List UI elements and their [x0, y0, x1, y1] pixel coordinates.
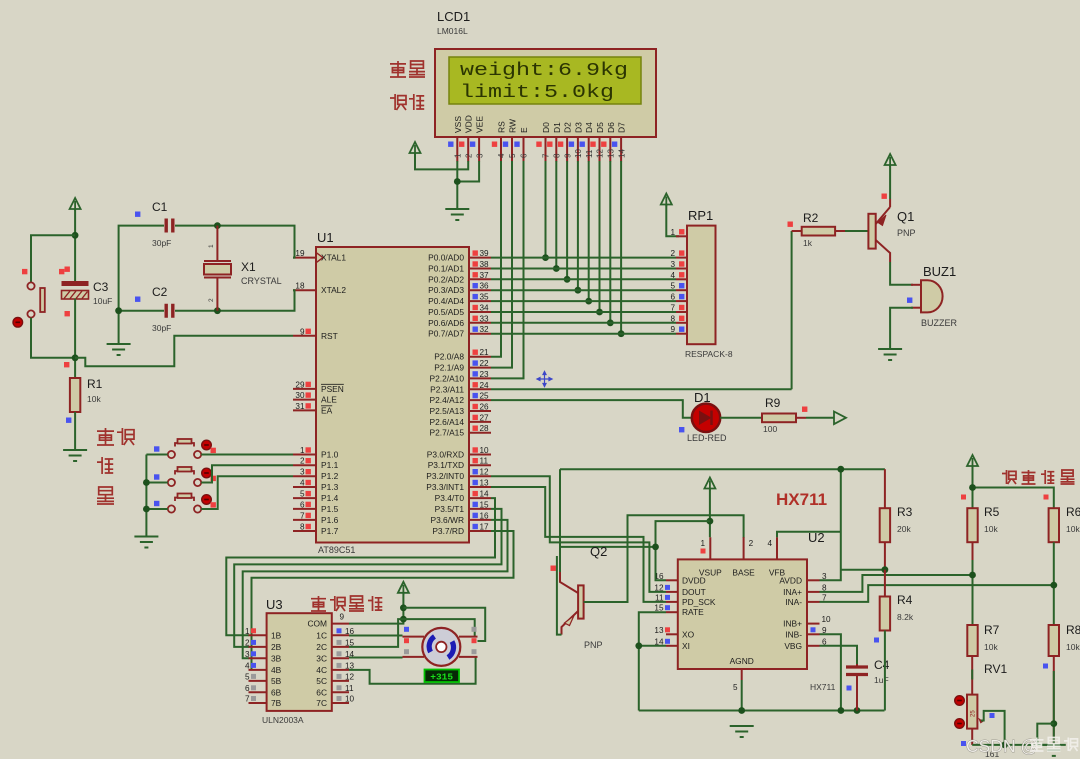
svg-text:RESPACK-8: RESPACK-8: [685, 349, 733, 359]
svg-text:1: 1: [454, 153, 463, 158]
ground bridge: [1042, 745, 1066, 756]
wire P3.6 to U3 3B: [243, 520, 508, 658]
wire LCD E to U1 P2.2: [491, 161, 524, 378]
svg-text:ULN2003A: ULN2003A: [262, 715, 304, 725]
svg-text:10: 10: [480, 446, 490, 455]
svg-text:R1: R1: [87, 377, 103, 391]
svg-text:13: 13: [654, 626, 664, 635]
node red squares bridge top: [961, 495, 966, 500]
power arrow HX711: [704, 478, 715, 491]
svg-text:21: 21: [480, 348, 490, 357]
resistor R9 100: [762, 414, 796, 423]
svg-text:P1.1: P1.1: [321, 460, 339, 470]
label chinese 步进电机: [311, 596, 326, 611]
pushbutton reset switch: [27, 282, 44, 317]
wire 4C to motor RB: [349, 658, 476, 684]
wire Q2 emitter: [557, 556, 562, 635]
wire LCD D4 to P0.4 bus: [588, 161, 590, 301]
U1 pin 2 P1.1: [293, 464, 316, 466]
svg-text:10: 10: [345, 695, 355, 704]
U1 pin 23 P2.2/A10: [469, 377, 491, 379]
junction DVDD net: [652, 544, 659, 551]
wire C2 left: [119, 310, 164, 312]
svg-text:+315: +315: [430, 671, 453, 682]
svg-text:38: 38: [480, 260, 490, 269]
resistor R5 10k: [967, 508, 977, 542]
junction R8 ground loop: [1050, 720, 1057, 727]
power arrow bridge: [967, 455, 978, 468]
svg-text:R7: R7: [984, 623, 1000, 637]
svg-text:22: 22: [480, 359, 490, 368]
svg-text:36: 36: [480, 282, 490, 291]
HX711 pin 12 DOUT: [666, 591, 678, 593]
svg-text:4: 4: [245, 661, 250, 670]
svg-text:2: 2: [670, 249, 675, 258]
U3 pin 12 5C: [332, 680, 349, 682]
wire P0.2 to RP1 pin 4: [491, 278, 676, 280]
LED D1 LED-RED: [692, 404, 720, 432]
wire P0.7 to RP1 pin 9: [491, 333, 676, 335]
wire VDD to power: [415, 153, 468, 169]
wire LCD RS to U1 P2.0: [491, 161, 501, 357]
svg-text:6B: 6B: [271, 687, 282, 697]
LCD pin 11 D4: [588, 137, 590, 162]
wire LCD D7 to P0.7 bus: [620, 161, 622, 334]
svg-text:P0.5/AD5: P0.5/AD5: [428, 307, 464, 317]
U1 pin 19 XTAL1: [293, 257, 316, 259]
svg-text:P1.4: P1.4: [321, 493, 339, 503]
svg-text:LED-RED: LED-RED: [687, 433, 727, 443]
wire P0.4 to RP1 pin 6: [491, 300, 676, 302]
node blue square C2: [135, 297, 140, 302]
LCD pin 8 D1: [555, 137, 557, 162]
wire power to Q1 emitter: [889, 165, 891, 199]
wire P3.4 to U3 1B: [226, 498, 495, 635]
svg-text:P0.3/AD3: P0.3/AD3: [428, 285, 464, 295]
svg-text:P2.7/A15: P2.7/A15: [430, 428, 465, 438]
capacitor C4 1uF: [856, 664, 858, 666]
node red square R2 corner: [788, 222, 793, 227]
wire R9 to terminal arrow: [806, 417, 834, 419]
node blue square R8: [1043, 664, 1048, 669]
svg-text:2: 2: [749, 539, 754, 548]
svg-text:P1.2: P1.2: [321, 471, 339, 481]
RP1 pin 9: [676, 333, 687, 335]
svg-text:RATE: RATE: [682, 607, 704, 617]
wire button3 to P1.2: [201, 476, 293, 509]
wire C3 to R1 junction: [74, 299, 76, 379]
U1 pin 27 P2.6/A14: [469, 421, 491, 423]
svg-text:D5: D5: [595, 122, 605, 133]
svg-text:33: 33: [480, 314, 490, 323]
wire INA- to bridge right: [820, 585, 1054, 602]
wire button 1 left: [146, 454, 167, 456]
U1 pin 38 P0.1/AD1: [469, 268, 491, 270]
wire P0.5 to RP1 pin 7: [491, 311, 676, 313]
wire R1 to ground: [74, 412, 76, 449]
svg-text:RW: RW: [508, 119, 518, 133]
node red squares switch: [22, 269, 27, 274]
svg-text:XI: XI: [682, 641, 690, 651]
svg-text:5C: 5C: [316, 676, 327, 686]
U3 pin 16 1C: [332, 634, 349, 636]
svg-text:12: 12: [345, 672, 355, 681]
label chinese 加: [97, 457, 113, 474]
U1 pin 9 RST: [293, 335, 316, 337]
svg-text:P2.1/A9: P2.1/A9: [434, 363, 464, 373]
svg-text:D7: D7: [617, 122, 627, 133]
wire P0.0 to RP1 pin 2: [491, 257, 676, 259]
resistor R8 10k: [1049, 625, 1059, 656]
HX711 pin 13 XO: [666, 633, 678, 635]
mcu U1 AT89C51 body: [316, 247, 469, 543]
RP1 pin 3: [676, 268, 687, 270]
svg-text:4: 4: [767, 539, 772, 548]
junction switch top: [72, 232, 79, 239]
svg-text:X1: X1: [241, 260, 256, 274]
label threshold chinese 阀值: [390, 94, 406, 110]
svg-text:R6: R6: [1066, 505, 1080, 519]
svg-text:Q2: Q2: [590, 544, 607, 559]
wire INB- to ground rail: [820, 634, 841, 710]
node red square RST: [64, 362, 69, 367]
svg-text:C1: C1: [152, 200, 168, 214]
stepper motor symbol: [403, 636, 425, 638]
svg-text:5: 5: [670, 282, 675, 291]
svg-text:14: 14: [617, 149, 626, 158]
svg-text:39: 39: [480, 249, 490, 258]
svg-text:5: 5: [300, 490, 305, 499]
svg-text:D2: D2: [563, 122, 573, 133]
svg-text:R4: R4: [897, 593, 913, 607]
node blue square LED: [679, 427, 684, 432]
svg-text:VBG: VBG: [784, 641, 802, 651]
wire R6 to node C: [1053, 542, 1055, 625]
svg-text:E: E: [519, 127, 529, 133]
svg-text:BUZZER: BUZZER: [921, 318, 958, 328]
node blue square R1: [66, 418, 71, 423]
label chinese 测重电桥: [1002, 470, 1016, 484]
wire VSUP branch to DVDD: [656, 521, 710, 580]
wire Q2 base to HX711 BASE: [584, 515, 744, 602]
HX711 pin 10 INB+: [807, 623, 820, 625]
wire bridge top rail: [972, 466, 974, 508]
junction C2 rail: [115, 307, 122, 314]
U1 pin 31 EA: [293, 409, 316, 411]
U1 pin 35 P0.4/AD4: [469, 300, 491, 302]
svg-text:DOUT: DOUT: [682, 587, 706, 597]
svg-text:PNP: PNP: [897, 228, 916, 238]
svg-text:AGND: AGND: [730, 656, 754, 666]
U1 pin 18 XTAL2: [293, 289, 316, 291]
svg-text:3: 3: [300, 468, 305, 477]
wire VSS down: [456, 161, 458, 208]
wire C1 left rail: [119, 226, 164, 343]
svg-text:1C: 1C: [316, 630, 327, 640]
U1 pin 3 P1.2: [293, 475, 316, 477]
U1 pin 6 P1.5: [293, 508, 316, 510]
wire LCD D2 to P0.2 bus: [566, 161, 568, 279]
svg-text:25: 25: [971, 710, 977, 717]
U3 pin 14 3C: [332, 657, 349, 659]
node blue square C4: [847, 686, 852, 691]
svg-text:INA-: INA-: [785, 597, 802, 607]
wire buttons ground rail: [145, 455, 147, 537]
svg-text:P3.5/T1: P3.5/T1: [435, 504, 465, 514]
U1 pin 13 P3.3/INT1: [469, 486, 491, 488]
svg-text:4: 4: [497, 153, 506, 158]
U1 pin 34 P0.5/AD5: [469, 311, 491, 313]
ground LCD VSS: [445, 209, 469, 220]
svg-text:4: 4: [670, 271, 675, 280]
U3 pin 4 4B: [249, 669, 267, 671]
svg-text:PSEN: PSEN: [321, 384, 344, 394]
wire RP1 pin1 to power: [666, 205, 679, 237]
svg-text:P2.0/A8: P2.0/A8: [434, 352, 464, 362]
wire power to COM: [349, 593, 403, 624]
svg-text:VSS: VSS: [453, 116, 463, 133]
LCD pin 9 D2: [566, 137, 568, 162]
svg-text:7: 7: [670, 304, 675, 313]
resistor pack RP1 RESPACK-8 body: [687, 226, 716, 345]
svg-text:VEE: VEE: [475, 116, 485, 133]
ground AGND: [730, 726, 754, 737]
svg-text:8: 8: [553, 153, 562, 158]
svg-text:10k: 10k: [984, 524, 998, 534]
U1 pin 1 P1.0: [293, 454, 316, 456]
svg-text:R8: R8: [1066, 623, 1080, 637]
svg-text:P3.3/INT1: P3.3/INT1: [426, 482, 464, 492]
svg-text:9: 9: [339, 613, 344, 622]
svg-text:P3.6/WR: P3.6/WR: [430, 515, 464, 525]
svg-text:C4: C4: [874, 658, 890, 672]
U1 pin 36 P0.3/AD3: [469, 289, 491, 291]
svg-text:2C: 2C: [316, 642, 327, 652]
U3 pin 13 4C: [332, 669, 349, 671]
wire AVDD vertical: [820, 469, 841, 580]
U3 pin 5 5B: [249, 680, 267, 682]
wire Q2 collector to DVDD net: [560, 546, 656, 548]
HX711 pin 8 INA+: [807, 591, 820, 593]
RV1 wiper arrow: [978, 718, 984, 724]
RP1 pin 8: [676, 322, 687, 324]
U1 pin 30 ALE: [293, 399, 316, 401]
U3 pin 3 3B: [249, 657, 267, 659]
svg-text:P0.4/AD4: P0.4/AD4: [428, 296, 464, 306]
resistor R1 10k: [70, 378, 80, 412]
svg-text:1: 1: [245, 627, 250, 636]
HX711 pin 11 PD_SCK: [666, 601, 678, 603]
svg-text:35: 35: [480, 293, 490, 302]
wire Q2 collector feed: [559, 469, 561, 572]
U1 pin 10 P3.0/RXD: [469, 454, 491, 456]
svg-text:R3: R3: [897, 505, 913, 519]
RP1 pin 2: [676, 257, 687, 259]
svg-text:7C: 7C: [316, 698, 327, 708]
resistor R3 20k: [884, 469, 886, 508]
svg-text:P2.6/A14: P2.6/A14: [430, 417, 465, 427]
node blue square C1: [135, 212, 140, 217]
U1 pin 22 P2.1/A9: [469, 367, 491, 369]
svg-text:HX711: HX711: [810, 682, 836, 692]
wire RATE to XI: [639, 612, 666, 710]
wire P2.3 to R2 net: [491, 388, 792, 390]
junction VSUP branch: [707, 518, 714, 525]
wire switch top: [31, 235, 75, 282]
svg-text:R5: R5: [984, 505, 1000, 519]
svg-text:limit:5.0kg: limit:5.0kg: [460, 82, 614, 103]
svg-text:R2: R2: [803, 211, 819, 225]
wire INA+ to bridge left: [820, 575, 972, 592]
junction stepper power 1: [400, 604, 407, 611]
svg-text:D4: D4: [584, 122, 594, 133]
wire buzzer to ground: [890, 308, 913, 348]
svg-text:5: 5: [733, 683, 738, 692]
svg-text:D1: D1: [694, 390, 711, 405]
power arrow RP1: [661, 194, 672, 207]
wire P0.3 to RP1 pin 5: [491, 289, 676, 291]
buzzer BUZ1 body: [921, 280, 943, 312]
svg-text:D6: D6: [606, 122, 616, 133]
U1 pin 24 P2.3/A11: [469, 388, 491, 390]
svg-text:9: 9: [670, 325, 675, 334]
svg-text:P2.2/A10: P2.2/A10: [430, 373, 465, 383]
svg-text:8: 8: [670, 314, 675, 323]
svg-text:7B: 7B: [271, 698, 282, 708]
junction X1 bottom: [214, 307, 221, 314]
junction RST node: [72, 354, 79, 361]
wire 3C to motor LB: [349, 657, 403, 659]
LCD pin 3 VEE: [478, 137, 480, 162]
junction node B: [969, 572, 976, 579]
resistor R4 8.2k: [884, 570, 886, 597]
svg-text:3C: 3C: [316, 653, 327, 663]
svg-text:LCD1: LCD1: [437, 9, 470, 24]
RP1 pin 4: [676, 278, 687, 280]
svg-text:Q1: Q1: [897, 209, 914, 224]
pushbutton K3: [168, 494, 201, 513]
svg-text:10k: 10k: [1066, 642, 1080, 652]
wire P3.3 to HX711 PD_SCK: [491, 487, 666, 602]
svg-text:3B: 3B: [271, 653, 282, 663]
svg-text:2: 2: [245, 638, 250, 647]
svg-text:D3: D3: [573, 122, 583, 133]
svg-text:23: 23: [480, 370, 490, 379]
svg-text:7: 7: [542, 153, 551, 158]
svg-text:8: 8: [300, 523, 305, 532]
node blue square RV1 bottom: [961, 741, 966, 746]
svg-text:9: 9: [300, 327, 305, 336]
svg-text:PD_SCK: PD_SCK: [682, 597, 716, 607]
svg-text:P3.0/RXD: P3.0/RXD: [427, 450, 464, 460]
LCD pin 12 D5: [599, 137, 601, 162]
svg-text:P0.7/AD7: P0.7/AD7: [428, 329, 464, 339]
svg-text:11: 11: [585, 149, 594, 158]
wire LCD D5 to P0.5 bus: [599, 161, 601, 312]
junction RATE/XI: [635, 642, 642, 649]
svg-text:10k: 10k: [984, 642, 998, 652]
junction node C: [1050, 582, 1057, 589]
wire 1C to motor LT: [349, 635, 403, 637]
svg-text:11: 11: [345, 684, 354, 693]
svg-text:10: 10: [822, 615, 832, 624]
U3 pin 1 1B: [249, 634, 267, 636]
U1 pin 8 P1.7: [293, 530, 316, 532]
HX711 pin 5 AGND: [741, 669, 743, 680]
svg-text:11: 11: [480, 457, 489, 466]
HX711 pin 7 INA-: [807, 601, 820, 603]
LCD pin 5 RW: [511, 137, 513, 162]
svg-text:D1: D1: [552, 122, 562, 133]
junction AVDD top rail: [837, 466, 844, 473]
pushbutton K2: [168, 467, 201, 486]
svg-text:1uF: 1uF: [874, 675, 889, 685]
svg-text:3: 3: [475, 153, 484, 158]
svg-text:12: 12: [480, 468, 490, 477]
svg-text:6C: 6C: [316, 687, 327, 697]
svg-text:R9: R9: [765, 396, 781, 410]
svg-text:6: 6: [670, 293, 675, 302]
svg-text:13: 13: [607, 149, 616, 158]
resistor R7 10k: [967, 625, 977, 656]
U3 pin 10 7C: [332, 702, 349, 704]
svg-text:P3.2/INT0: P3.2/INT0: [426, 471, 464, 481]
svg-text:5B: 5B: [271, 676, 282, 686]
svg-text:2: 2: [208, 298, 215, 302]
wire P3.5 to U3 2B: [234, 509, 501, 647]
power arrow stepper: [398, 582, 409, 595]
top supply rail: [560, 468, 885, 470]
svg-text:6: 6: [245, 684, 250, 693]
U1 pin 29 PSEN: [293, 388, 316, 390]
wire C1 right to XTAL1: [175, 226, 295, 258]
wire 2C to motor RT: [349, 619, 475, 647]
wire LCD D0 to P0.0 bus: [545, 161, 547, 258]
wire RST net to U1: [75, 336, 293, 367]
resistor R2 1k: [792, 230, 802, 232]
svg-text:7: 7: [245, 695, 250, 704]
wire P3.7 to U3 4B: [252, 531, 514, 670]
label chinese 打包: [97, 428, 114, 445]
svg-text:20k: 20k: [897, 524, 911, 534]
svg-text:HX711: HX711: [776, 490, 827, 509]
U3 pin 2 2B: [249, 646, 267, 648]
svg-text:2: 2: [464, 153, 473, 158]
svg-text:29: 29: [295, 380, 305, 389]
U1 pin 12 P3.2/INT0: [469, 475, 491, 477]
U1 pin 11 P3.1/TXD: [469, 464, 491, 466]
svg-text:5: 5: [508, 153, 517, 158]
wire P0.6 to RP1 pin 8: [491, 322, 676, 324]
LCD pin 13 D6: [609, 137, 611, 162]
wire LED to R9: [720, 417, 762, 419]
svg-text:U1: U1: [317, 230, 334, 245]
svg-text:2B: 2B: [271, 642, 282, 652]
junction VSS/VEE: [454, 178, 461, 185]
U1 pin 4 P1.3: [293, 486, 316, 488]
LCD pin 4 RS: [500, 137, 502, 162]
U3 pin 11 6C: [332, 691, 349, 693]
power arrow VDD top: [410, 142, 421, 155]
svg-text:10k: 10k: [87, 394, 101, 404]
wire bridge bottom rail: [972, 744, 1054, 746]
svg-text:RS: RS: [497, 121, 507, 133]
svg-text:4: 4: [300, 479, 305, 488]
wire button1 to P1.0: [201, 454, 293, 456]
svg-text:C3: C3: [93, 280, 109, 294]
svg-text:VDD: VDD: [464, 115, 474, 133]
RP1 pin 5: [676, 289, 687, 291]
